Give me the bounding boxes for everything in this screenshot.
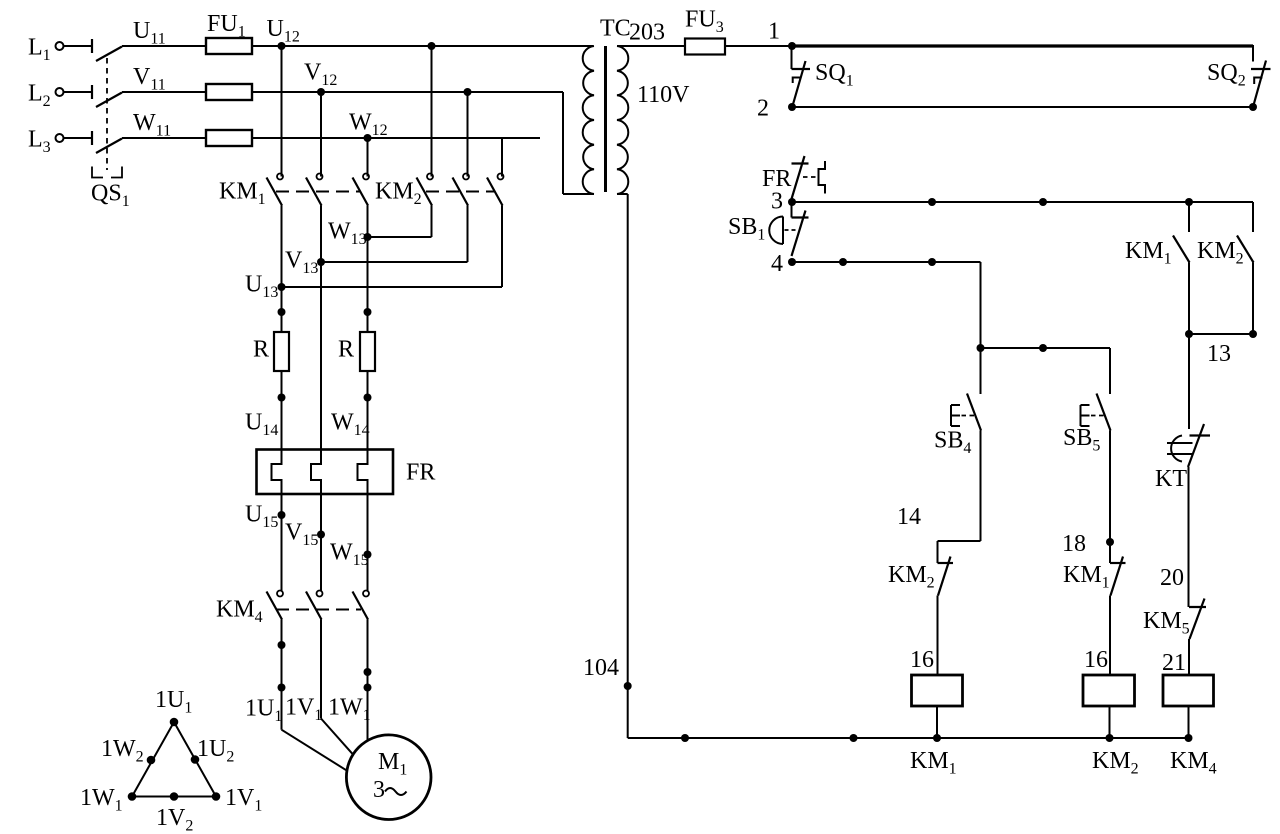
junction on rail 3 b bbox=[1039, 198, 1047, 206]
svg-text:16: 16 bbox=[910, 647, 934, 673]
terminal L3 bbox=[28, 127, 64, 157]
label KM2 (coil) bbox=[1092, 748, 1139, 778]
limit switch SQ1 bbox=[792, 46, 811, 106]
wire L2 to QS1 bbox=[64, 91, 92, 93]
label SQ1 bbox=[815, 60, 854, 90]
node 104 bbox=[583, 655, 632, 690]
wire W column FR to KM4 bbox=[367, 494, 369, 591]
wire rail 2 bbox=[792, 106, 1253, 108]
node V13 bbox=[285, 248, 325, 278]
label KM2 (aux) bbox=[1197, 238, 1244, 268]
fuse FU1 pole 3 bbox=[206, 130, 252, 146]
delta winding edges bbox=[132, 722, 216, 797]
wire drop to KM2 contact 1 bbox=[431, 46, 433, 177]
label U11 bbox=[133, 18, 166, 48]
svg-text:21: 21 bbox=[1162, 650, 1186, 676]
node W12 bbox=[349, 110, 388, 143]
node V12 bbox=[304, 60, 337, 97]
coil KM2 bbox=[1083, 675, 1135, 706]
label FR (contact) bbox=[762, 166, 791, 192]
wire coil KM2 to rail bbox=[1109, 706, 1111, 738]
wire 1V1 lead bbox=[321, 620, 353, 755]
node U13 bbox=[245, 272, 286, 302]
interlock contact KM2 (NC) bbox=[938, 557, 954, 596]
wire to coil KM1 bbox=[937, 596, 939, 676]
svg-text:14: 14 bbox=[897, 504, 921, 530]
label KT bbox=[1155, 466, 1187, 492]
label KM5 bbox=[1143, 608, 1190, 638]
linkage KM4 (dashed) bbox=[276, 609, 361, 611]
junction bottom rail a bbox=[681, 734, 689, 742]
label KM1 (interlock) bbox=[1063, 562, 1110, 592]
resistor R (W column) bbox=[338, 332, 375, 371]
label KM2 (main) bbox=[375, 179, 422, 209]
label KM1 (aux) bbox=[1125, 238, 1172, 268]
wire join aux contacts bbox=[1189, 333, 1253, 335]
label SQ2 bbox=[1207, 60, 1246, 90]
node 18 bbox=[1062, 531, 1114, 557]
wire row 3 after fuse bbox=[252, 137, 540, 139]
junction coil KM1 bottom bbox=[933, 734, 941, 742]
delta node 1U2 bbox=[191, 736, 235, 766]
wire KT to KM5 bbox=[1188, 467, 1190, 607]
node on 1U1 lead b bbox=[278, 684, 286, 692]
svg-text:110V: 110V bbox=[637, 82, 690, 108]
contactor KM2 main contact 3 bbox=[487, 174, 504, 206]
wire U2 drop to KM1 contact bbox=[320, 92, 322, 177]
svg-text:20: 20 bbox=[1160, 565, 1184, 591]
junction coil KM2 bottom bbox=[1106, 734, 1114, 742]
wire W11 bbox=[122, 137, 206, 139]
node 4 bbox=[771, 251, 796, 277]
label W11 bbox=[133, 110, 171, 140]
label 110V bbox=[637, 82, 690, 108]
svg-text:1: 1 bbox=[768, 19, 780, 45]
label 203 bbox=[629, 20, 665, 46]
terminal L1 bbox=[28, 35, 64, 65]
label 1V1 bbox=[285, 695, 322, 725]
limit switch SQ2 bbox=[1251, 61, 1271, 108]
label KM4 (coil) bbox=[1170, 748, 1217, 778]
svg-text:R: R bbox=[338, 337, 354, 363]
node 13 right bbox=[1249, 330, 1257, 338]
svg-text:13: 13 bbox=[1207, 341, 1231, 367]
label 20 bbox=[1160, 565, 1184, 591]
wire rail 4 bbox=[792, 262, 981, 348]
junction rail 4 a bbox=[839, 258, 847, 266]
svg-text:18: 18 bbox=[1062, 531, 1086, 557]
time contact KT bbox=[1188, 424, 1210, 467]
node W13 bbox=[328, 219, 372, 249]
resistor R (U column) bbox=[253, 332, 289, 371]
contactor KM4 main contact 2 bbox=[306, 591, 323, 620]
wire coil KM4 to rail bbox=[1188, 706, 1190, 738]
wire 1U1 lead bbox=[282, 620, 347, 771]
delta node 1U1 bbox=[155, 687, 192, 726]
wire branch to SB5 bbox=[981, 347, 1111, 349]
svg-text:203: 203 bbox=[629, 20, 665, 46]
coil KM1 bbox=[912, 675, 963, 706]
node 13 left bbox=[1185, 330, 1193, 338]
wire KM2-3 to node U13 bbox=[282, 206, 503, 288]
motor M1 bbox=[346, 735, 431, 820]
delta node 1V1 bbox=[212, 785, 263, 815]
label V11 bbox=[133, 64, 166, 94]
wire secondary bottom to 104 rail bbox=[617, 194, 628, 738]
wire row 1 after fuse bbox=[252, 45, 593, 47]
label KM2 (interlock) bbox=[888, 562, 935, 592]
label QS1 bbox=[91, 181, 130, 211]
FR heater element (V) bbox=[311, 450, 321, 495]
junction KM2-b on V row bbox=[464, 88, 472, 96]
wire V11 bbox=[122, 91, 206, 93]
svg-text:R: R bbox=[253, 337, 269, 363]
node 1 bbox=[768, 19, 796, 51]
wire U11 bbox=[122, 45, 206, 47]
label 1U1 bbox=[245, 696, 282, 726]
node on W column bbox=[364, 308, 372, 316]
wire row 2 after fuse bbox=[252, 91, 563, 93]
wire coil KM1 to rail bbox=[936, 706, 938, 738]
label KM1 (main) bbox=[219, 179, 266, 209]
switch QS1 pole 3 bbox=[92, 131, 122, 153]
wire KM2 aux down bbox=[1252, 263, 1254, 335]
label KM1 (coil) bbox=[910, 748, 957, 778]
fuse FU1 pole 1 bbox=[206, 38, 252, 54]
label 14 bbox=[897, 504, 921, 530]
label SB1 bbox=[728, 214, 765, 244]
contactor KM2 main contact 2 bbox=[453, 174, 470, 206]
wire SB5 top bbox=[1109, 348, 1111, 394]
label 3-phase bbox=[373, 777, 407, 803]
wire rail3 corner to KM2 aux bbox=[1252, 202, 1254, 232]
junction on rail 3 c bbox=[1185, 198, 1193, 206]
label 13 bbox=[1207, 341, 1231, 367]
junction rail 4 b bbox=[928, 258, 936, 266]
wire SB4 top bbox=[980, 348, 982, 394]
SB1 button actuator bbox=[769, 217, 798, 245]
wire KM2-2 to node V13 bbox=[321, 206, 468, 263]
node 2 bbox=[757, 96, 796, 122]
wire KM2-1 to node W13 bbox=[368, 206, 432, 238]
wire V column FR to KM4 bbox=[320, 494, 322, 591]
node SB4 top bbox=[977, 344, 985, 352]
pushbutton SB5 (NO) bbox=[1081, 394, 1111, 431]
fuse FU3 bbox=[685, 7, 725, 55]
contactor KM2 main contact 1 bbox=[417, 174, 434, 206]
wire FU3 to node 1 bbox=[725, 45, 792, 47]
wire SB4 to KM2 contact bbox=[938, 431, 981, 564]
thermal relay FR box bbox=[257, 450, 394, 495]
linkage KM2 (dashed) bbox=[426, 191, 495, 193]
delta node 1W1 bbox=[80, 785, 136, 815]
wire W column R to FR bbox=[367, 371, 369, 450]
wire top rail 1 to SQ2 bbox=[792, 45, 1253, 62]
svg-text:2: 2 bbox=[757, 96, 769, 122]
node U14 bbox=[245, 394, 286, 440]
wire V column through bbox=[320, 206, 322, 450]
delta node 1V2 bbox=[156, 792, 193, 834]
switch QS1 pole 1 bbox=[92, 39, 122, 61]
wire drop to KM2 contact 2 bbox=[467, 92, 469, 177]
wire U column R to FR bbox=[281, 371, 283, 450]
node W14 bbox=[331, 394, 372, 440]
wire U3 drop to KM1 contact bbox=[367, 138, 369, 177]
wire U1 drop to KM1 contact bbox=[281, 46, 283, 177]
terminal L2 bbox=[28, 81, 64, 111]
node on U column bbox=[278, 308, 286, 316]
junction branch bbox=[1039, 344, 1047, 352]
FR trip linkage (dashed) bbox=[803, 176, 818, 178]
pushbutton SB1 (NC) bbox=[792, 202, 809, 256]
FR trip element bbox=[819, 161, 826, 194]
FR heater element (U) bbox=[272, 450, 282, 495]
label FR (overload) bbox=[406, 460, 435, 486]
junction on rail 3 a bbox=[928, 198, 936, 206]
wire SB5 to KM1 contact bbox=[1109, 431, 1111, 564]
wire U column KM1 to R bbox=[281, 206, 283, 333]
transformer TC core bbox=[604, 46, 607, 192]
svg-text:16: 16 bbox=[1084, 647, 1108, 673]
wire L1 to QS1 bbox=[64, 45, 92, 47]
coil KM4 bbox=[1163, 675, 1214, 706]
wire L3 to QS1 bbox=[64, 137, 92, 139]
junction KM2-a on U row bbox=[428, 42, 436, 50]
contactor KM1 main contact 3 bbox=[353, 174, 370, 206]
junction coil KM4 bottom bbox=[1185, 734, 1193, 742]
contactor KM4 main contact 3 bbox=[353, 591, 370, 620]
transformer TC secondary winding bbox=[617, 46, 628, 194]
wire W column KM1 to R bbox=[367, 206, 369, 333]
label 21 bbox=[1162, 650, 1186, 676]
transformer TC primary winding bbox=[583, 46, 594, 194]
node U15 bbox=[245, 502, 286, 532]
svg-text:4: 4 bbox=[771, 251, 783, 277]
node W15 bbox=[330, 540, 372, 570]
switch QS1 pole 2 bbox=[92, 85, 122, 107]
pushbutton SB4 (NO) bbox=[951, 394, 981, 431]
auxiliary contact KM2 (NO) bbox=[1237, 236, 1254, 263]
wire U column FR to KM4 bbox=[281, 494, 283, 591]
wire drop to KM2 contact 3 bbox=[501, 138, 503, 177]
delta node 1W2 bbox=[101, 736, 155, 766]
node SQ2 bottom bbox=[1249, 103, 1257, 111]
label M1 bbox=[378, 749, 407, 779]
label FU1 bbox=[207, 11, 246, 41]
wire KM5 to coil KM4 bbox=[1188, 639, 1190, 675]
junction bottom rail b bbox=[850, 734, 858, 742]
node 3 bbox=[771, 189, 796, 215]
label 1W1 bbox=[328, 695, 371, 725]
linkage QS1 (dashed) bbox=[106, 58, 108, 170]
svg-text:KT: KT bbox=[1155, 466, 1187, 492]
contactor KM1 main contact 1 bbox=[267, 174, 284, 206]
interlock contact KM1 (NC) bbox=[1110, 557, 1126, 596]
node on 1W1 lead a bbox=[364, 668, 372, 676]
thermal contact FR (NC) bbox=[792, 156, 809, 199]
wire bottom rail bbox=[628, 737, 1189, 739]
wire rail3 to KM1 aux bbox=[1188, 202, 1190, 232]
svg-text:TC: TC bbox=[600, 16, 631, 42]
node on 1U1 lead a bbox=[278, 641, 286, 649]
KT delay symbol bbox=[1167, 436, 1193, 462]
wire to coil KM2 bbox=[1109, 596, 1111, 676]
label SB5 bbox=[1063, 425, 1100, 455]
svg-text:FR: FR bbox=[406, 460, 435, 486]
svg-text:3: 3 bbox=[771, 189, 783, 215]
node U12 bbox=[267, 16, 300, 50]
FR heater element (W) bbox=[358, 450, 368, 495]
wire secondary top (203) bbox=[617, 45, 685, 47]
label KM4 bbox=[216, 597, 263, 627]
interlock contact KM5 (NC) bbox=[1189, 599, 1206, 640]
wire 1W1 lead bbox=[367, 620, 369, 741]
node V15 bbox=[285, 520, 325, 550]
wire to KT bbox=[1188, 334, 1190, 429]
label 16 (KM2 coil) bbox=[1084, 647, 1108, 673]
node on 1W1 lead b bbox=[364, 684, 372, 692]
fuse FU1 pole 2 bbox=[206, 84, 252, 100]
linkage KM1 (dashed) bbox=[276, 191, 361, 193]
handle QS1 bbox=[92, 167, 122, 178]
auxiliary contact KM1 (NO) bbox=[1173, 236, 1190, 263]
svg-text:104: 104 bbox=[583, 655, 619, 681]
label 16 (KM1 coil) bbox=[910, 647, 934, 673]
wire V12 to primary bottom bbox=[563, 92, 594, 194]
svg-text:3: 3 bbox=[373, 777, 385, 803]
label TC bbox=[600, 16, 631, 42]
label SB4 bbox=[934, 428, 971, 458]
contactor KM1 main contact 2 bbox=[306, 174, 323, 206]
wire KM1 aux down bbox=[1188, 263, 1190, 335]
wire rail 3 bbox=[792, 201, 1253, 203]
contactor KM4 main contact 1 bbox=[267, 591, 284, 620]
